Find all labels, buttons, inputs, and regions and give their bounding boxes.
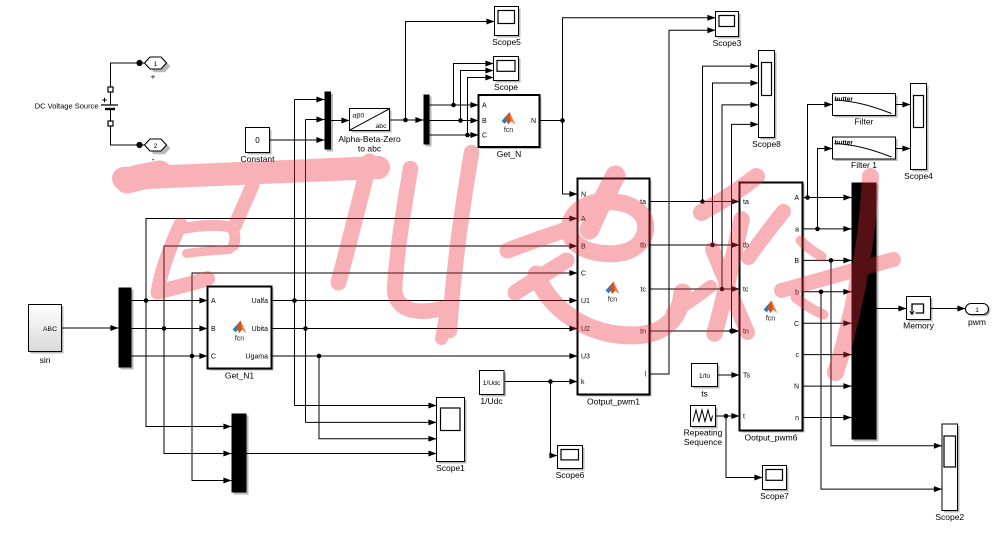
wire repseq to pwm6 t + scope7 branch [716,414,763,478]
battery DC Voltage Source [35,87,118,126]
svg-text:fcn: fcn [608,297,617,304]
wire Ualfa branch: mux1 in1 / scope1 in1 [292,100,436,406]
svg-text:A: A [211,298,216,305]
wire pwm6 a to mux4 [803,228,852,230]
svg-text:1/fo: 1/fo [699,373,711,380]
svg-text:Scope4: Scope4 [904,171,933,181]
svg-text:B: B [482,118,487,125]
filter block Filter 1 [833,137,898,170]
svg-text:Scope2: Scope2 [935,512,964,522]
wire demux2 C to Get_N + scope branch [430,78,494,138]
port 1 [145,57,171,82]
wire Get_N N out to scope3 and pwm1 N [540,18,716,194]
svg-text:tc: tc [641,287,647,294]
wire pwm6 b to mux4 [803,291,852,293]
svg-text:Ualfa: Ualfa [252,298,268,305]
svg-text:1: 1 [975,307,979,314]
wire branch a to Filter1 [815,149,832,232]
wire port1 to battery [111,60,145,87]
wire pwm6 N to mux4 [803,385,852,387]
wire branch B to scope2 in1 [829,258,942,446]
svg-text:fcn: fcn [504,127,513,134]
wire B net [132,246,578,454]
svg-text:Sequence: Sequence [684,437,723,447]
repeating sequence block [684,406,723,448]
svg-text:U3: U3 [581,354,590,361]
wire mux1 to alpha-beta [331,120,350,122]
svg-text:ABC: ABC [43,326,57,333]
svg-text:C: C [211,354,216,361]
wire mux3 to scope1 in4 [247,453,437,455]
scope Scope8 [752,51,781,150]
wire ta pwm1-pwm6 + scope8 branch [650,66,759,204]
output port pwm [966,304,991,328]
subsystem Get_N1 [208,287,274,381]
scope Scope1 [436,398,466,474]
constant block "0" [240,128,275,165]
wire Ualfa to pwm1 U1 [272,300,578,302]
scope Scope5 [492,7,521,48]
transform block Alpha-Beta-Zero to abc [338,109,401,154]
wire Ubita to pwm1 U2 [272,328,578,330]
svg-text:Scope: Scope [494,82,518,92]
svg-text:sin: sin [40,355,51,365]
wire 1/fo to pwm6 Ts [718,374,740,376]
scope Scope7 [760,466,789,502]
wire pwm1 l out to scope3 in2 [650,30,716,374]
wire sin to demux1 [62,327,119,329]
wire pwm6 A to mux4 [803,197,852,199]
watermark (red calligraphy overlay) [124,153,894,373]
memory block [903,297,934,331]
svg-text:C: C [581,271,586,278]
svg-text:B: B [794,258,799,265]
svg-text:a: a [795,227,799,234]
svg-text:Ugama: Ugama [245,354,268,361]
wire A net: demux1-GetN1-pwm1A-mux3 [132,219,578,427]
filter block Filter [833,94,898,127]
subsystem Ootput_pwm6 [740,183,805,443]
wire pwm6 B to mux4 [803,259,852,261]
svg-text:fcn: fcn [766,316,775,323]
svg-text:n: n [795,415,799,422]
svg-text:Filter: Filter [855,117,874,127]
svg-text:B: B [211,326,216,333]
scope Scope4 [904,84,933,182]
svg-text:Scope6: Scope6 [556,470,585,480]
svg-text:+: + [151,72,156,82]
svg-text:1/Udc: 1/Udc [483,380,501,387]
svg-text:Scope5: Scope5 [492,37,521,47]
svg-text:Alpha-Beta-Zero: Alpha-Beta-Zero [338,134,401,144]
svg-text:αβ0: αβ0 [353,113,365,120]
source block sin [29,305,64,366]
svg-text:0: 0 [255,136,260,145]
svg-text:C: C [482,133,487,140]
svg-text:Get_N1: Get_N1 [225,371,255,381]
wire alpha-beta to demux2 + scope5 branch [390,22,495,123]
wire memory to pwm port [931,308,966,310]
wire Filter1 to scope4 in2 [896,148,911,150]
svg-text:Scope3: Scope3 [713,38,742,48]
mux Mux1 [325,92,334,152]
svg-text:2: 2 [154,143,158,150]
subsystem Get_N [479,95,542,159]
wire pwm6 n to mux4 [803,417,852,419]
scope Scope [494,57,521,93]
svg-text:Ubita: Ubita [252,326,268,333]
svg-text:fcn: fcn [235,336,244,343]
wire battery to port2 [111,126,145,148]
wire tn + scope8 branch [650,124,759,333]
svg-text:N: N [794,384,799,391]
svg-text:Ts: Ts [743,373,751,380]
svg-text:DC Voltage Source: DC Voltage Source [35,102,99,111]
wire demux2 B to Get_N + scope branch [430,71,494,123]
wire 1/Udc to pwm1 k + scope6 branch [504,379,578,455]
wire tc + scope8 branch [650,105,759,291]
svg-text:Scope8: Scope8 [752,139,781,149]
svg-text:k: k [581,379,585,386]
wire Ubita branch: mux1 in2 / scope1 in2 [303,120,436,423]
wire constant to mux1 [270,139,325,141]
wire demux2 A to Get_N + scope branch [430,64,494,108]
svg-text:1/Udc: 1/Udc [480,396,503,406]
svg-text:Scope7: Scope7 [760,491,789,501]
scope Scope3 [713,12,742,49]
svg-text:pwm: pwm [968,317,986,327]
wire branch A to Filter [805,105,832,200]
constant block 1/Udc [480,371,507,407]
mux Mux3 [232,414,249,495]
svg-text:Repeating: Repeating [684,428,723,438]
svg-text:A: A [794,195,799,202]
svg-text:Memory: Memory [903,321,934,331]
svg-text:U1: U1 [581,298,590,305]
svg-text:to abc: to abc [358,144,382,154]
constant block 1/fo [692,364,720,399]
svg-text:C: C [794,321,799,328]
demux Demux2 [424,95,432,147]
wire tb + scope8 branch [650,83,759,247]
svg-text:Ootput_pwm6: Ootput_pwm6 [745,433,798,443]
svg-text:abc: abc [376,123,388,130]
port 2 [145,139,171,165]
svg-text:c: c [796,352,800,359]
wire mux4 to memory [877,308,907,310]
svg-text:Scope1: Scope1 [436,463,465,473]
mux Mux4 (big) [852,183,879,442]
scope Scope6 [556,446,585,481]
wire Filter to scope4 in1 [896,104,911,106]
svg-text:N: N [531,118,536,125]
subsystem Ootput_pwm1 [578,179,652,407]
svg-text:1: 1 [154,61,158,68]
svg-text:ta: ta [743,199,749,206]
svg-text:Ootput_pwm1: Ootput_pwm1 [587,397,640,407]
svg-text:tc: tc [743,287,749,294]
demux Demux1 [119,288,134,370]
wire Ugama to pwm1 U3 + scope1 in3 branch [272,354,578,439]
scope Scope2 [935,424,964,522]
svg-text:ts: ts [701,389,708,399]
wire pwm6 C to mux4 [803,322,852,324]
wire branch b to scope2 in2 [819,290,942,490]
svg-text:Get_N: Get_N [497,149,522,159]
wire pwm6 c to mux4 [803,354,852,356]
wire C net [132,273,578,481]
svg-text:t: t [743,414,745,421]
svg-text:A: A [482,103,487,110]
